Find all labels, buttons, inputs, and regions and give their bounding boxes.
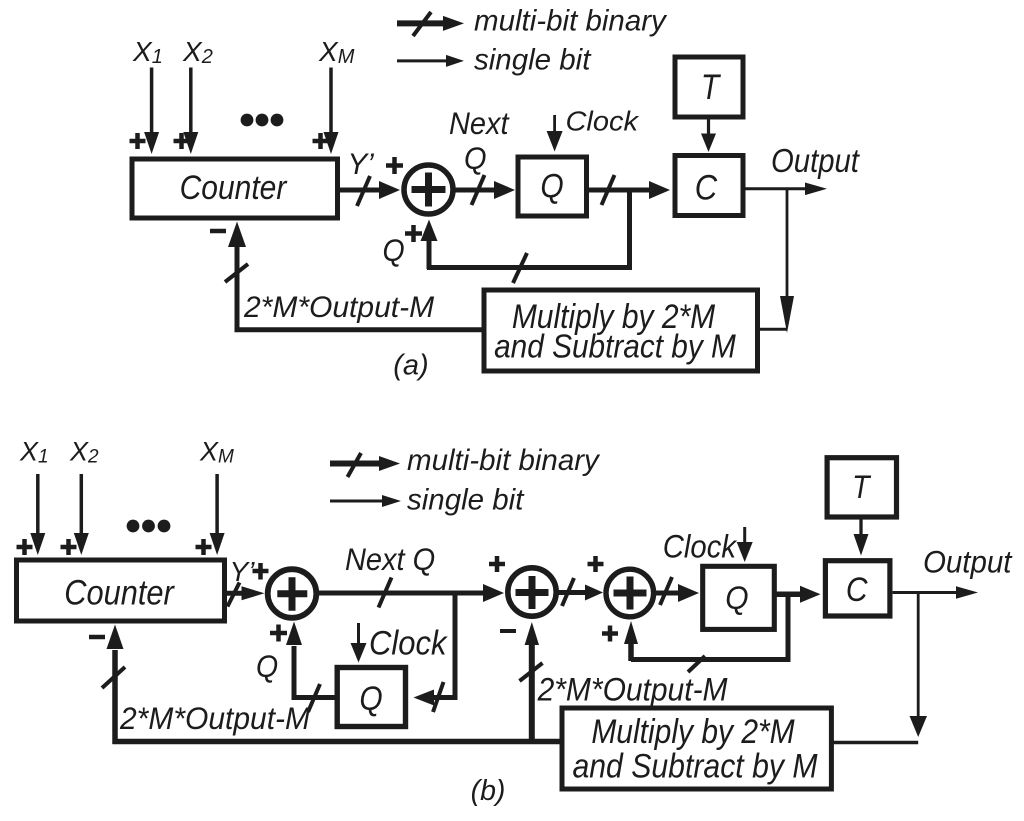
svg-text:Clock: Clock [566,106,640,138]
svg-text:Q: Q [382,234,404,269]
svg-text:Output: Output [923,545,1013,580]
svg-text:T: T [701,67,721,107]
svg-text:Y’: Y’ [348,148,375,181]
svg-text:Q: Q [359,679,382,717]
svg-text:2*M*Output-M: 2*M*Output-M [119,700,310,736]
svg-text:multi-bit binary: multi-bit binary [474,5,668,38]
svg-text:Next: Next [449,107,510,141]
svg-text:C: C [846,570,868,608]
svg-text:and Subtract by M: and Subtract by M [572,747,817,785]
svg-text:Multiply by 2*M: Multiply by 2*M [591,712,795,750]
svg-text:2*M*Output-M: 2*M*Output-M [243,291,434,324]
svg-text:Counter: Counter [180,168,288,206]
svg-text:(a): (a) [393,350,428,382]
svg-text:Clock: Clock [369,624,448,662]
svg-text:Y’: Y’ [230,556,256,587]
svg-text:Clock: Clock [663,528,738,565]
svg-text:Output: Output [771,142,860,179]
svg-text:single bit: single bit [407,484,525,517]
svg-text:Q: Q [256,650,278,685]
svg-text:multi-bit binary: multi-bit binary [407,444,601,477]
svg-text:C: C [695,169,718,208]
svg-text:Q: Q [464,141,487,177]
svg-text:2*M*Output-M: 2*M*Output-M [537,672,728,708]
svg-text:T: T [852,469,872,505]
svg-text:Next Q: Next Q [345,542,435,578]
svg-text:Q: Q [540,167,563,205]
svg-text:Counter: Counter [64,573,175,612]
svg-text:single bit: single bit [474,44,592,77]
svg-text:and Subtract by M: and Subtract by M [494,327,736,365]
svg-text:(b): (b) [471,775,506,807]
svg-text:Q: Q [725,580,748,616]
